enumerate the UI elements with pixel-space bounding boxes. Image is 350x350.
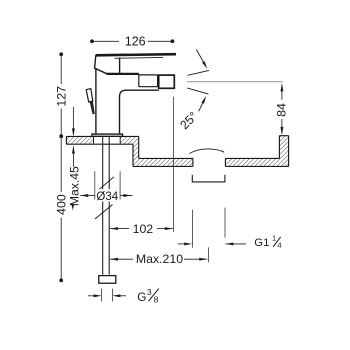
svg-text:84: 84: [274, 103, 288, 117]
svg-text:G: G: [137, 290, 146, 304]
svg-text:Max.210: Max.210: [136, 252, 183, 266]
svg-text:126: 126: [125, 35, 146, 49]
svg-text:400: 400: [54, 194, 68, 215]
svg-text:127: 127: [54, 86, 68, 107]
svg-text:8: 8: [154, 295, 159, 305]
svg-text:3: 3: [147, 287, 152, 297]
svg-text:102: 102: [133, 222, 154, 236]
svg-text:Max.45: Max.45: [67, 166, 81, 206]
svg-text:1: 1: [272, 234, 276, 243]
svg-text:Ø34: Ø34: [96, 191, 118, 203]
svg-text:4: 4: [277, 241, 281, 250]
svg-text:G1: G1: [254, 237, 269, 249]
